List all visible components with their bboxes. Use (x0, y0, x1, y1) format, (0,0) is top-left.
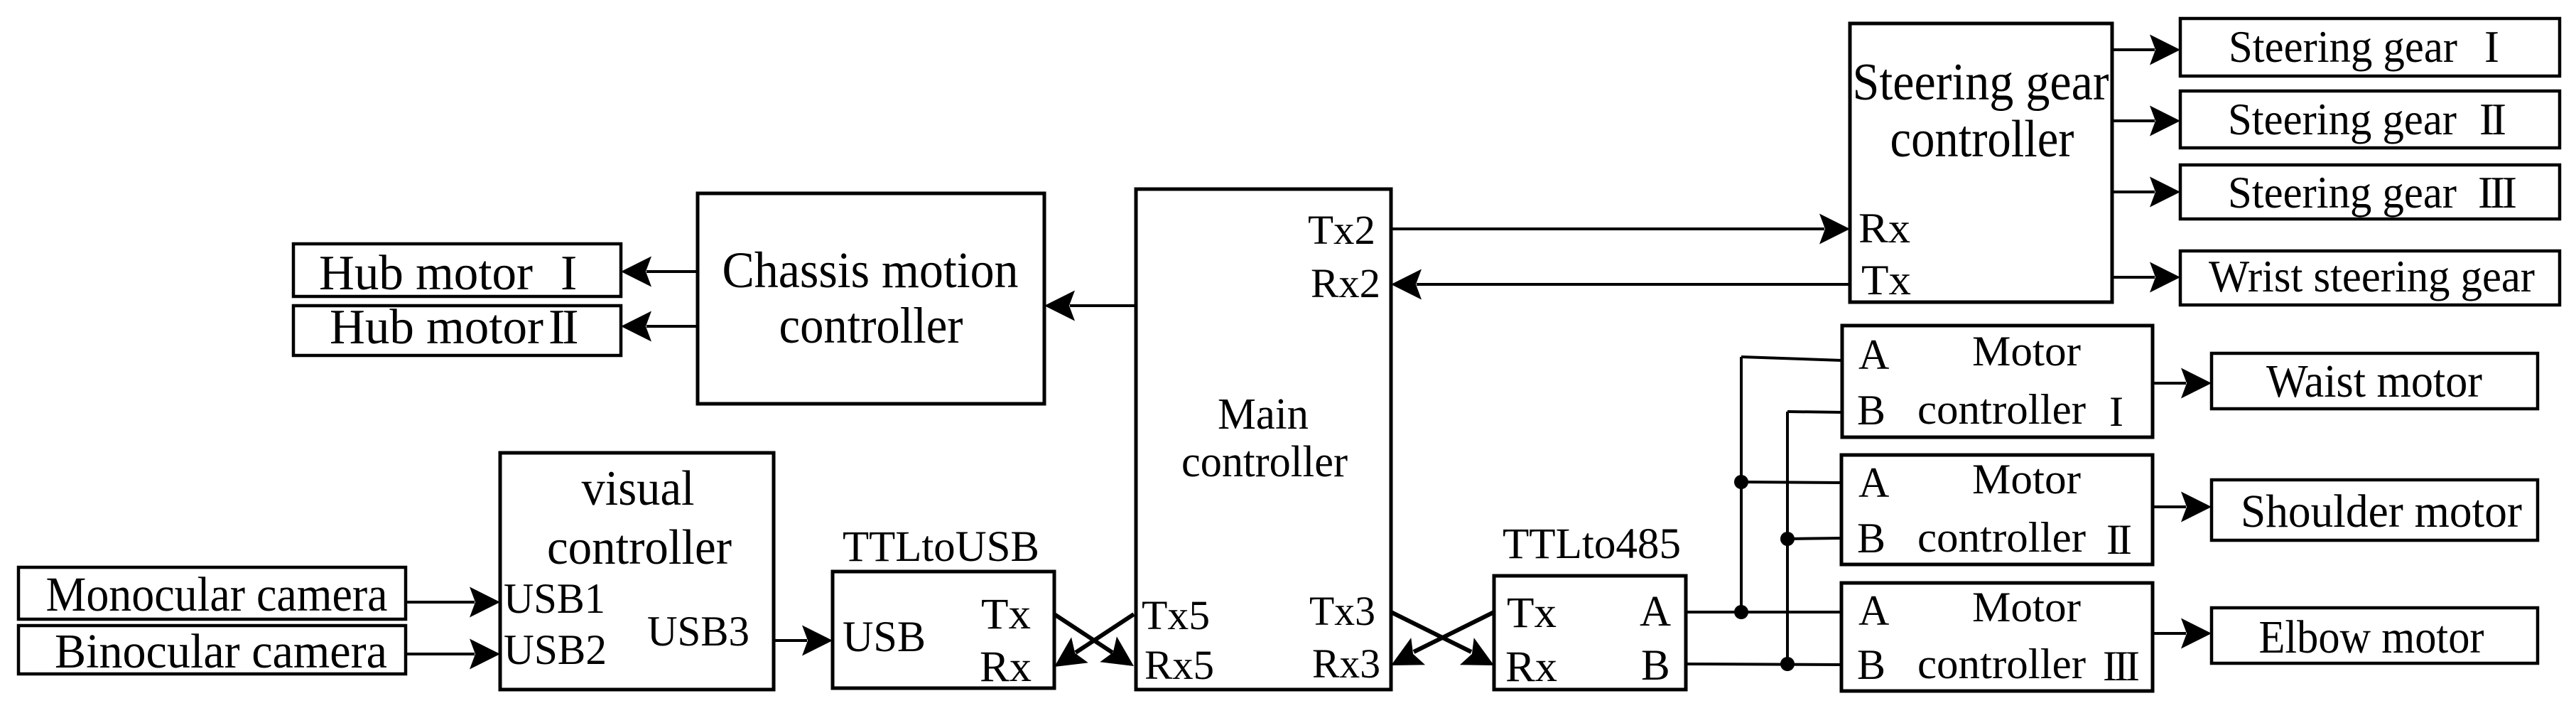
box Motor controller III (1841, 583, 2153, 691)
svg-text:controller: controller (1917, 386, 2086, 433)
svg-text:A: A (1858, 331, 1889, 378)
svg-text:Motor: Motor (1972, 328, 2081, 375)
wire B bus vertical (1786, 412, 1789, 664)
wire TTLtoUSB Tx to Main Rx5 (crossing) (1054, 614, 1142, 679)
svg-text:Monocular camera: Monocular camera (46, 567, 388, 621)
svg-text:visual: visual (582, 461, 695, 516)
svg-text:Motor: Motor (1972, 456, 2081, 503)
svg-text:II: II (548, 300, 577, 355)
wire A bus to Motor controller II A (1741, 482, 1841, 483)
svg-text:Tx5: Tx5 (1142, 592, 1210, 638)
wire Binocular camera to USB2 (406, 639, 500, 670)
box Motor controller I (1842, 326, 2153, 437)
box Waist motor (2212, 353, 2538, 409)
box visual controller (500, 453, 774, 690)
svg-text:Tx3: Tx3 (1309, 588, 1375, 634)
svg-text:Elbow motor: Elbow motor (2259, 611, 2484, 663)
wire Motor controller I to Waist motor (2153, 368, 2212, 399)
wire A bus vertical (1740, 357, 1743, 612)
box Steering gear controller (1850, 23, 2112, 304)
svg-text:II: II (2479, 95, 2505, 144)
wire Chassis controller to Hub motor II (621, 311, 698, 342)
junction B bus / TTLto485 B line (1780, 657, 1795, 671)
box Chassis motion controller (698, 193, 1044, 404)
svg-text:I: I (2484, 22, 2499, 72)
box Shoulder motor (2212, 480, 2538, 540)
wire A bus to Motor controller I A (1741, 357, 1842, 360)
svg-text:Tx: Tx (1861, 257, 1911, 304)
svg-text:USB3: USB3 (647, 608, 749, 655)
svg-text:B: B (1641, 642, 1670, 690)
box TTLto485 (1494, 520, 1686, 691)
wire B bus to Motor controller I B (1787, 412, 1842, 412)
wire Steering Tx to Main Rx2 (1391, 269, 1850, 300)
svg-text:Steering gear: Steering gear (1853, 53, 2109, 112)
box Motor controller II (1841, 455, 2153, 564)
svg-text:B: B (1857, 515, 1885, 562)
svg-text:Shoulder motor: Shoulder motor (2241, 486, 2522, 537)
svg-text:USB1: USB1 (504, 575, 605, 622)
wire Steering controller to Steering gear II (2112, 106, 2180, 136)
svg-text:Chassis motion: Chassis motion (723, 242, 1019, 299)
svg-text:Tx2: Tx2 (1308, 207, 1375, 253)
svg-text:controller: controller (1917, 514, 2086, 561)
svg-text:I: I (2109, 388, 2123, 435)
wire Main controller to Chassis controller (1044, 291, 1136, 321)
box Wrist steering gear (2180, 251, 2560, 305)
svg-text:Rx: Rx (1858, 205, 1910, 252)
svg-text:Rx3: Rx3 (1312, 641, 1380, 687)
wire Steering controller to Steering gear III (2112, 177, 2180, 208)
wire TTLto485 Tx to Main Rx3 (crossing) (1384, 612, 1494, 679)
svg-text:III: III (2103, 643, 2138, 690)
box TTLtoUSB (833, 523, 1054, 691)
svg-text:USB2: USB2 (504, 626, 607, 673)
svg-text:Main: Main (1218, 390, 1309, 439)
junction A bus / controller II A (1734, 475, 1748, 489)
svg-text:Wrist steering gear: Wrist steering gear (2209, 252, 2535, 301)
svg-text:Tx: Tx (1507, 589, 1557, 637)
wire Main Tx3 to TTLto485 Rx (crossing) (1391, 612, 1501, 679)
svg-text:III: III (2478, 168, 2516, 218)
svg-text:TTLtoUSB: TTLtoUSB (843, 523, 1039, 571)
svg-text:Rx5: Rx5 (1144, 642, 1214, 688)
wire TTLto485 B to Motor controller III B (1686, 664, 1841, 665)
wire visual controller USB3 to TTLtoUSB USB (774, 626, 833, 656)
svg-text:controller: controller (779, 297, 963, 354)
svg-text:USB: USB (843, 613, 926, 661)
svg-text:Hub motor: Hub motor (330, 300, 543, 355)
box Binocular camera (18, 624, 406, 678)
svg-text:A: A (1640, 588, 1671, 636)
svg-text:Waist motor: Waist motor (2266, 355, 2482, 407)
box Steering gear II (2180, 91, 2560, 148)
svg-text:A: A (1858, 587, 1889, 634)
wire Motor controller III to Elbow motor (2153, 618, 2212, 649)
svg-text:B: B (1857, 641, 1885, 688)
svg-text:controller: controller (1181, 438, 1348, 486)
svg-text:Tx: Tx (981, 591, 1031, 638)
box Steering gear I (2180, 18, 2560, 76)
svg-text:controller: controller (1890, 110, 2074, 168)
wire Steering controller to Steering gear I (2112, 35, 2180, 65)
svg-text:Steering gear: Steering gear (2228, 168, 2457, 218)
wire Motor controller II to Shoulder motor (2153, 492, 2212, 523)
svg-text:I: I (561, 246, 577, 301)
svg-text:Binocular camera: Binocular camera (55, 624, 387, 678)
wire B bus to Motor controller II B (1787, 538, 1841, 539)
wire Steering controller to Wrist steering gear (2112, 262, 2180, 293)
wire Main Tx2 to Steering Rx (1391, 214, 1850, 245)
box Elbow motor (2212, 608, 2538, 663)
wire Main Tx5 to TTLtoUSB Rx (crossing) (1046, 614, 1134, 680)
junction B bus / controller II B (1780, 532, 1795, 546)
box Hub motor I (293, 244, 621, 301)
svg-text:Hub motor: Hub motor (319, 246, 533, 301)
wire Monocular camera to USB1 (406, 587, 500, 618)
svg-text:Motor: Motor (1972, 584, 2081, 631)
svg-text:controller: controller (1917, 641, 2086, 687)
wire Chassis controller to Hub motor I (621, 257, 698, 287)
svg-text:Rx: Rx (980, 643, 1032, 691)
svg-text:Steering gear: Steering gear (2229, 22, 2457, 72)
svg-text:TTLto485: TTLto485 (1503, 520, 1681, 568)
box Steering gear III (2180, 165, 2560, 219)
svg-text:Rx: Rx (1505, 643, 1557, 691)
svg-text:controller: controller (547, 520, 732, 575)
svg-text:B: B (1857, 387, 1885, 434)
svg-text:A: A (1858, 459, 1889, 506)
svg-text:Rx2: Rx2 (1311, 260, 1380, 306)
svg-text:II: II (2106, 516, 2131, 563)
box Hub motor II (293, 300, 621, 355)
box Monocular camera (18, 567, 406, 621)
junction A bus / TTLto485 A line (1734, 605, 1748, 619)
wire TTLto485 A to Motor controller III A (1686, 611, 1841, 613)
box Main controller (1136, 189, 1391, 690)
svg-text:Steering gear: Steering gear (2228, 95, 2457, 144)
